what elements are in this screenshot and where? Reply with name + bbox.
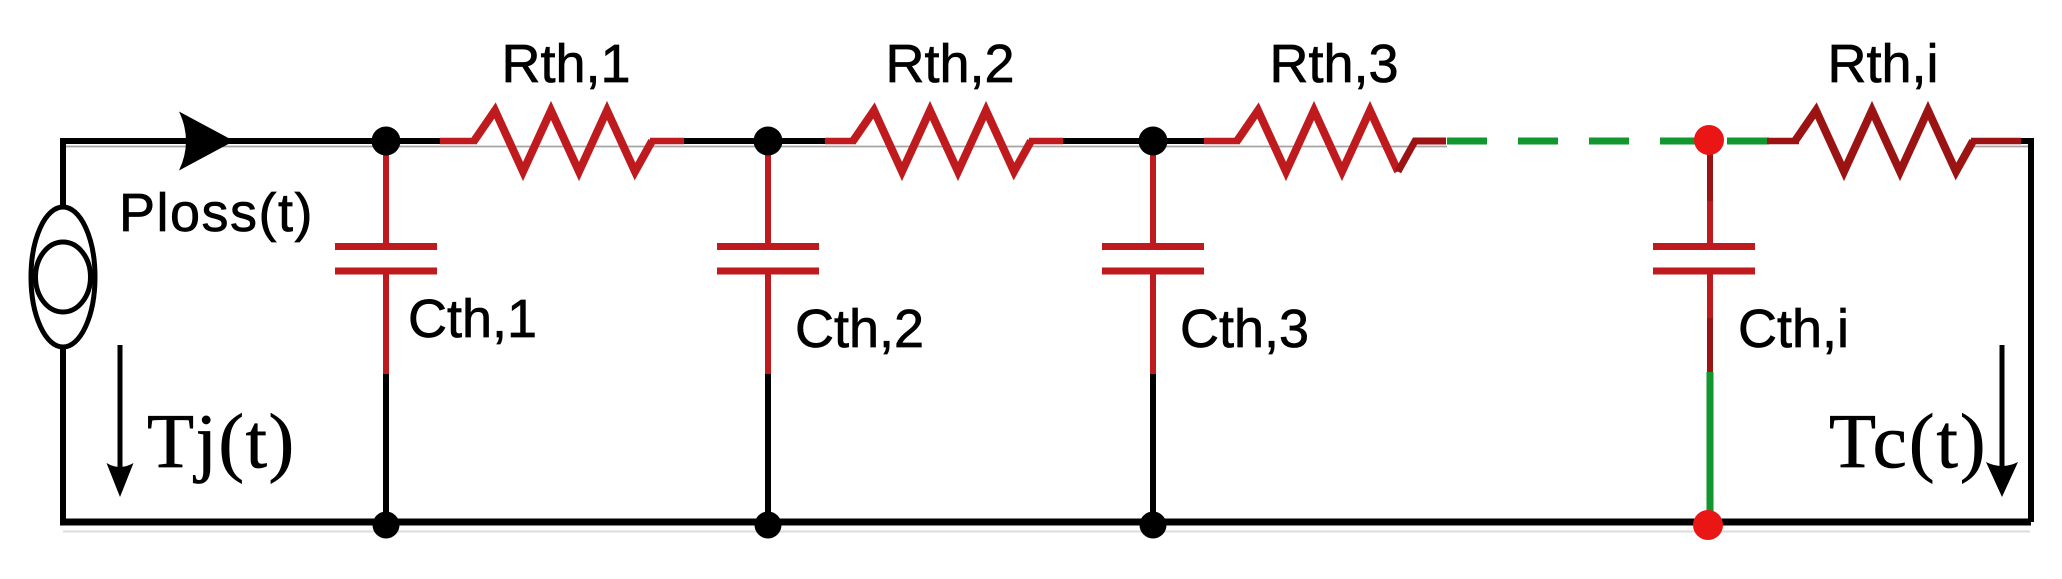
svg-text:Rth,3: Rth,3 bbox=[1269, 34, 1398, 94]
svg-text:Cth,2: Cth,2 bbox=[795, 299, 924, 359]
svg-text:Cth,i: Cth,i bbox=[1738, 299, 1849, 359]
svg-text:Rth,i: Rth,i bbox=[1827, 34, 1938, 94]
svg-text:Rth,2: Rth,2 bbox=[885, 34, 1014, 94]
svg-text:Tc(t): Tc(t) bbox=[1829, 398, 1988, 484]
svg-text:Cth,1: Cth,1 bbox=[408, 289, 537, 349]
svg-text:Ploss(t): Ploss(t) bbox=[119, 183, 314, 243]
svg-text:Tj(t): Tj(t) bbox=[147, 398, 296, 484]
svg-text:Rth,1: Rth,1 bbox=[501, 34, 630, 94]
svg-text:Cth,3: Cth,3 bbox=[1180, 299, 1309, 359]
